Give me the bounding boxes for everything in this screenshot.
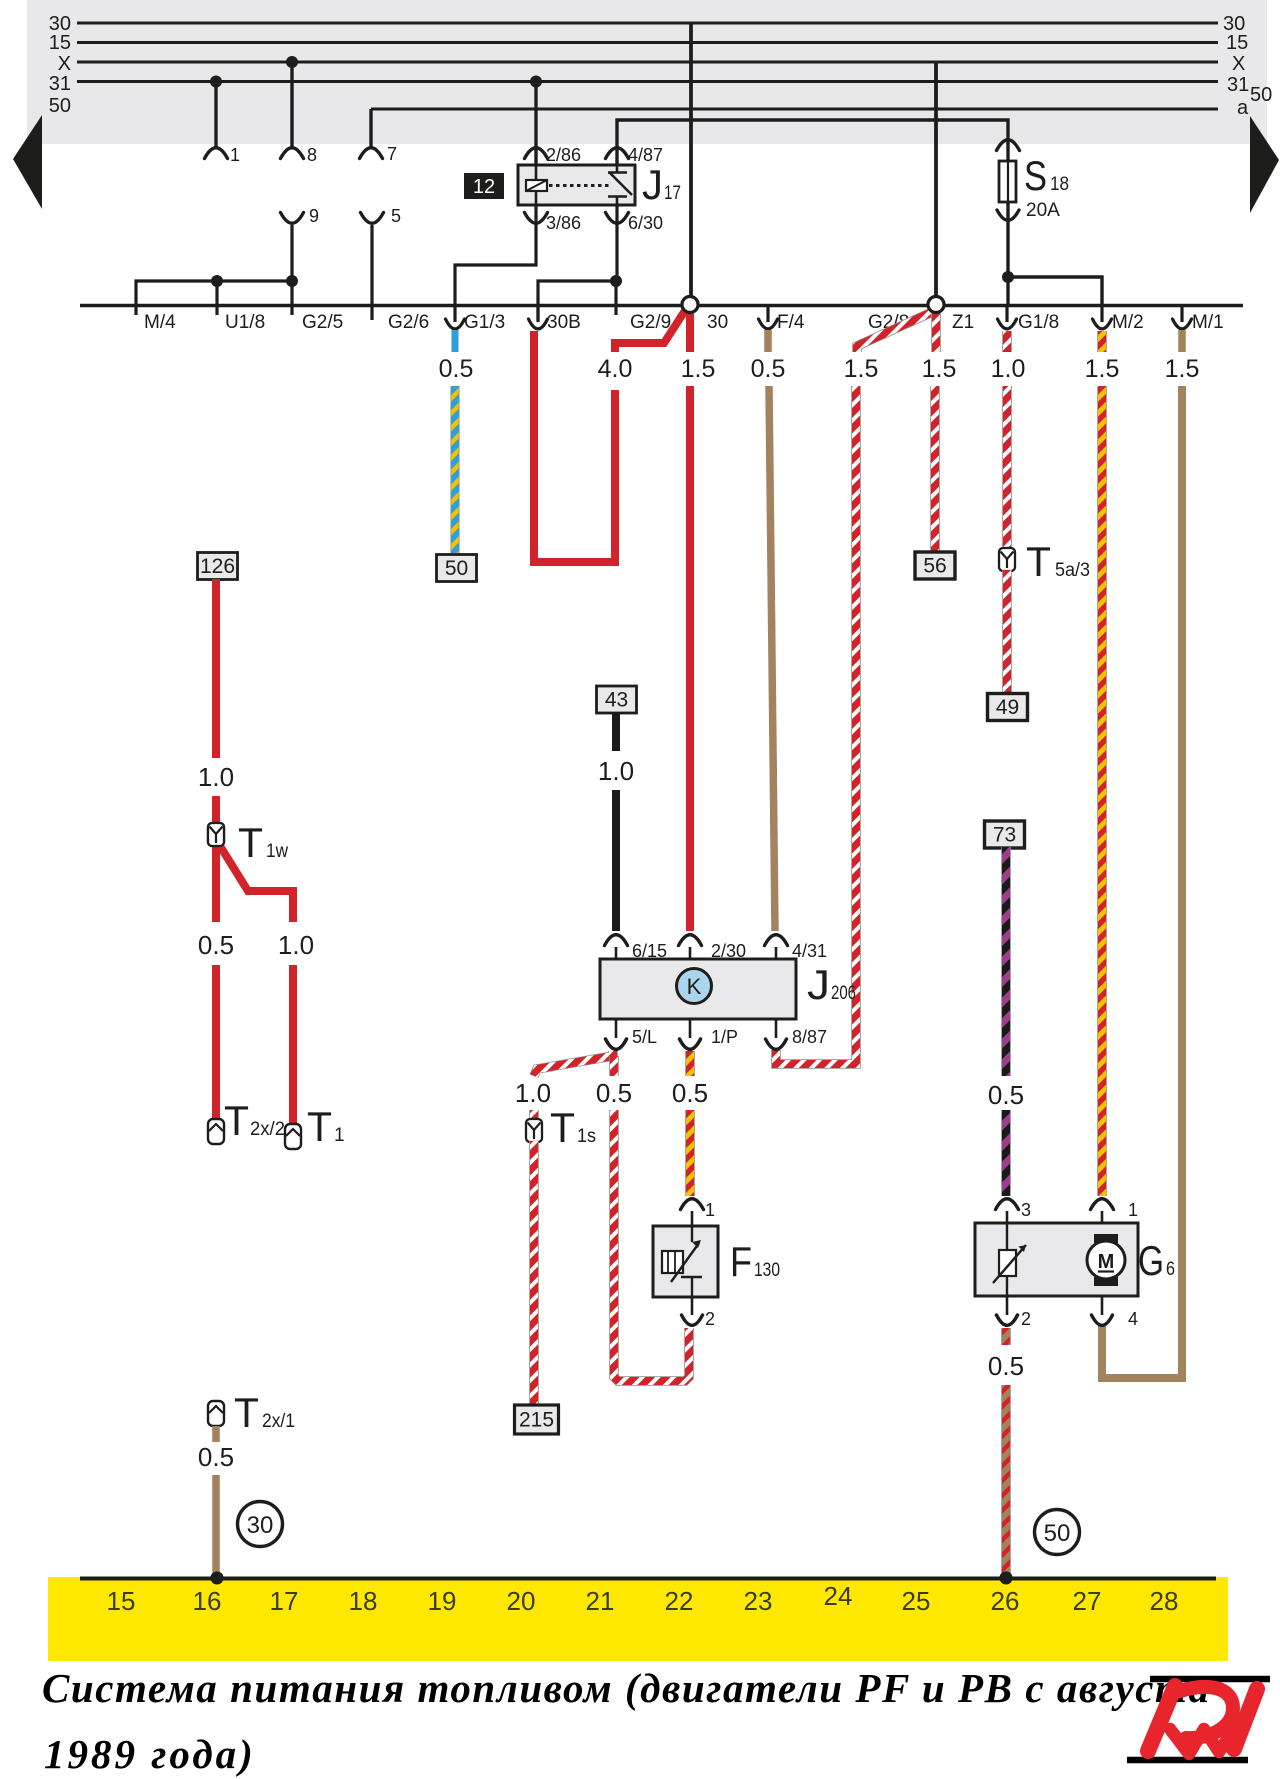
pin 6/30 bbox=[606, 213, 629, 224]
wire 1/P stub bbox=[685, 1051, 695, 1076]
pin 4/31 bbox=[765, 935, 788, 946]
wire 126 red upper bbox=[212, 579, 220, 758]
fuse S18 body bbox=[1007, 120, 1010, 305]
wire conn 5 to G2/6 bbox=[370, 225, 373, 320]
junction dot on X at x292 bbox=[286, 56, 298, 68]
fuse S18 bottom arc bbox=[997, 210, 1019, 220]
svg-text:50: 50 bbox=[1250, 84, 1272, 106]
cup G1/3 bbox=[453, 305, 456, 322]
wire 5/L down stub bbox=[609, 1056, 619, 1076]
svg-text:2: 2 bbox=[705, 1309, 715, 1329]
svg-text:M: M bbox=[1098, 1251, 1115, 1273]
svg-text:1: 1 bbox=[705, 1200, 715, 1220]
pin 2/86 bbox=[525, 148, 548, 159]
svg-text:1989 года): 1989 года) bbox=[44, 1731, 256, 1777]
G6 pin2 cup top bbox=[997, 1315, 1018, 1325]
left arrow bbox=[13, 115, 42, 209]
wire G1/3 stub bbox=[452, 330, 459, 352]
wire bus30 to terminal 30 bbox=[689, 23, 693, 296]
wire 4/87 to fuse bbox=[617, 120, 1008, 306]
svg-text:27: 27 bbox=[1073, 1586, 1102, 1616]
svg-text:0.5: 0.5 bbox=[988, 1080, 1024, 1110]
svg-text:1/P: 1/P bbox=[711, 1027, 738, 1047]
svg-text:M/2: M/2 bbox=[1112, 312, 1144, 333]
pin 8/87 bbox=[775, 1019, 778, 1038]
wire Z1 stub bbox=[931, 312, 941, 352]
wire busX to Z1 bbox=[934, 62, 938, 296]
box 126 bbox=[198, 553, 238, 580]
svg-text:31: 31 bbox=[1227, 74, 1249, 96]
cup G1/8 bbox=[1005, 305, 1008, 322]
wire 5/L to F130 pin2 bbox=[614, 1110, 689, 1381]
wire F/4 brown bbox=[769, 386, 775, 931]
svg-text:1.0: 1.0 bbox=[598, 756, 634, 786]
svg-text:5a/3: 5a/3 bbox=[1055, 560, 1090, 581]
svg-text:M/1: M/1 bbox=[1192, 312, 1224, 333]
svg-text:17: 17 bbox=[270, 1586, 299, 1616]
svg-text:7: 7 bbox=[387, 144, 397, 164]
G6 pin 1 bbox=[1091, 1199, 1114, 1210]
svg-text:22: 22 bbox=[665, 1586, 694, 1616]
wire 73 to G6 pin3 lower bbox=[1001, 1110, 1011, 1196]
wire net to 30B bbox=[538, 281, 616, 320]
svg-text:1.5: 1.5 bbox=[1085, 355, 1120, 383]
yellow track band bbox=[48, 1577, 1228, 1661]
svg-text:43: 43 bbox=[605, 689, 628, 712]
svg-text:2/30: 2/30 bbox=[711, 941, 746, 961]
connector 7 bbox=[360, 148, 383, 159]
svg-text:G1/3: G1/3 bbox=[464, 312, 505, 333]
logo red monogram bbox=[1148, 1686, 1175, 1751]
connector T1w bbox=[208, 823, 224, 846]
connector T1w redraw bbox=[208, 823, 224, 846]
G6 pin 2 bbox=[1006, 1296, 1009, 1315]
junction dot ground 16 bbox=[211, 1572, 224, 1585]
ground symbol 50 bbox=[1035, 1510, 1080, 1555]
wire T2x/1 stub bbox=[212, 1426, 220, 1442]
bus line 31 bbox=[77, 80, 1218, 83]
svg-text:S: S bbox=[1024, 152, 1047, 199]
svg-text:Z1: Z1 bbox=[952, 312, 974, 333]
J17 dotted link bbox=[549, 184, 612, 187]
svg-text:12: 12 bbox=[473, 176, 495, 198]
label 12 box bbox=[464, 173, 504, 199]
svg-text:1.5: 1.5 bbox=[1165, 355, 1200, 383]
connector T5a/3 bbox=[999, 548, 1015, 571]
wire T2x/1 to ground bbox=[212, 1475, 220, 1574]
svg-text:G1/8: G1/8 bbox=[1018, 312, 1059, 333]
pump G6 body bbox=[975, 1223, 1138, 1296]
wire G1/3 blue/yellow bbox=[450, 386, 459, 553]
svg-text:56: 56 bbox=[923, 555, 946, 578]
svg-text:6/30: 6/30 bbox=[628, 213, 663, 233]
right arrow bbox=[1250, 116, 1279, 213]
svg-text:49: 49 bbox=[996, 696, 1019, 719]
svg-text:4/87: 4/87 bbox=[628, 145, 663, 165]
rail bbox=[80, 304, 1243, 308]
svg-text:J: J bbox=[807, 961, 830, 1008]
svg-text:T: T bbox=[550, 1104, 575, 1151]
pin 6/15 bbox=[605, 935, 628, 946]
wire 126 red to T1w bbox=[212, 796, 220, 824]
wire M/1 stub bbox=[1178, 330, 1186, 352]
svg-text:1w: 1w bbox=[266, 841, 288, 862]
ground symbol 30 bbox=[238, 1502, 283, 1547]
wire G2/8 diagonal bbox=[857, 313, 930, 352]
junction dot S18 split bbox=[1002, 271, 1014, 283]
svg-text:1.0: 1.0 bbox=[198, 762, 234, 792]
svg-text:50: 50 bbox=[445, 557, 468, 580]
svg-text:1.0: 1.0 bbox=[278, 930, 314, 960]
sender F130 body bbox=[653, 1226, 718, 1297]
svg-text:5/L: 5/L bbox=[632, 1027, 657, 1047]
svg-text:0.5: 0.5 bbox=[198, 930, 234, 960]
wire M/2 to G6 pin1 bbox=[1097, 386, 1107, 1196]
svg-text:4: 4 bbox=[1128, 1309, 1138, 1329]
G6 sender symbol bbox=[1006, 1223, 1008, 1296]
wire T1s to 215 bbox=[529, 1141, 539, 1405]
svg-text:T: T bbox=[238, 819, 263, 866]
svg-text:0.5: 0.5 bbox=[439, 355, 474, 383]
junction dot U1/8 bbox=[211, 275, 223, 287]
svg-text:2x/1: 2x/1 bbox=[262, 1411, 295, 1432]
pin 5/L cup top bbox=[606, 1039, 627, 1049]
wire S18 to M/2 stub bbox=[1008, 277, 1102, 305]
wire 6/30 to net bbox=[615, 205, 618, 281]
wire 30B red 4.0 bbox=[534, 331, 615, 562]
box 215 bbox=[515, 1405, 559, 1434]
wire M/1 to G6 pin4 bbox=[1102, 386, 1182, 1378]
svg-text:126: 126 bbox=[200, 555, 235, 578]
svg-text:T: T bbox=[307, 1103, 332, 1150]
svg-text:G2/9: G2/9 bbox=[630, 312, 671, 333]
svg-text:18: 18 bbox=[1050, 174, 1069, 195]
svg-text:28: 28 bbox=[1150, 1586, 1179, 1616]
wire F/4 stub bbox=[764, 330, 772, 352]
svg-text:30: 30 bbox=[707, 312, 728, 333]
wire G6 pin2 stub bbox=[1001, 1328, 1011, 1345]
wire 43 black lower bbox=[612, 790, 620, 931]
svg-text:2/86: 2/86 bbox=[546, 145, 581, 165]
J17 switch bbox=[616, 165, 619, 173]
svg-text:30B: 30B bbox=[547, 312, 581, 333]
svg-text:X: X bbox=[1232, 53, 1245, 75]
cup M/1 bbox=[1180, 305, 1183, 322]
svg-text:20: 20 bbox=[507, 1586, 536, 1616]
connector 5 bbox=[361, 213, 384, 224]
svg-text:5: 5 bbox=[391, 206, 401, 226]
svg-text:1.5: 1.5 bbox=[681, 355, 716, 383]
svg-text:9: 9 bbox=[309, 206, 319, 226]
svg-text:F/4: F/4 bbox=[777, 312, 805, 333]
pin 2/30 bbox=[679, 935, 702, 946]
box 43 bbox=[597, 686, 637, 713]
wire Z1 to 56 bbox=[930, 386, 940, 552]
grey bus-bar band bbox=[27, 0, 1267, 144]
svg-text:15: 15 bbox=[107, 1586, 136, 1616]
wire local net y281 bbox=[136, 281, 293, 315]
svg-text:1.0: 1.0 bbox=[515, 1078, 551, 1108]
svg-text:23: 23 bbox=[744, 1586, 773, 1616]
wire to T1 bbox=[289, 965, 297, 1132]
bus line 30 bbox=[77, 22, 1218, 25]
connector 1 bbox=[205, 148, 228, 159]
relay J17 body bbox=[518, 165, 635, 205]
cup 30B bbox=[536, 305, 539, 322]
connector 8 bbox=[281, 148, 304, 159]
svg-text:26: 26 bbox=[991, 1586, 1020, 1616]
svg-text:X: X bbox=[58, 53, 71, 75]
node 30 circle top bbox=[682, 297, 698, 313]
svg-text:19: 19 bbox=[428, 1586, 457, 1616]
svg-text:0.5: 0.5 bbox=[596, 1078, 632, 1108]
svg-text:2: 2 bbox=[1021, 1309, 1031, 1329]
svg-text:T: T bbox=[224, 1097, 249, 1144]
logo bottom line bbox=[1127, 1757, 1248, 1764]
fuse S18 top arc bbox=[997, 140, 1020, 151]
svg-text:3/86: 3/86 bbox=[546, 213, 581, 233]
svg-text:6: 6 bbox=[1166, 1259, 1175, 1280]
wire conn 8 to bus X bbox=[290, 62, 293, 147]
svg-text:3: 3 bbox=[1021, 1200, 1031, 1220]
box 73 bbox=[985, 821, 1025, 848]
pin 1/P cup top bbox=[680, 1039, 701, 1049]
box 50 bbox=[437, 555, 477, 582]
node Z1 circle bbox=[928, 297, 944, 313]
wire G1/8 lower bbox=[1002, 570, 1012, 693]
svg-text:4.0: 4.0 bbox=[598, 355, 633, 383]
wire G1/8 stub bbox=[1002, 331, 1012, 352]
svg-text:73: 73 bbox=[993, 824, 1016, 847]
wire conn 7 elbow bbox=[369, 109, 372, 147]
J206 K symbol bbox=[677, 969, 712, 1004]
svg-text:G: G bbox=[1138, 1237, 1164, 1284]
box 49 bbox=[988, 694, 1028, 721]
bus line 15 bbox=[77, 41, 1218, 44]
F130 internals bbox=[691, 1226, 693, 1242]
svg-text:G2/6: G2/6 bbox=[388, 312, 429, 333]
cup F/4 bbox=[766, 305, 769, 322]
svg-text:4/31: 4/31 bbox=[792, 941, 827, 961]
svg-text:G2/5: G2/5 bbox=[302, 312, 343, 333]
wire U1/8 stub bbox=[215, 281, 218, 315]
svg-text:17: 17 bbox=[664, 183, 681, 204]
G6 pin 3 bbox=[996, 1199, 1019, 1210]
wire 3/86 to G1/3 bbox=[455, 205, 536, 305]
wire to T2x/2 bbox=[212, 965, 220, 1127]
junction dot on 31 at x536 bbox=[530, 76, 542, 88]
connector T1 bbox=[285, 1124, 301, 1149]
wire M/2 stub bbox=[1097, 331, 1107, 352]
wire 2/86 to bus 31 bbox=[534, 82, 537, 166]
wire T1w branch bbox=[220, 846, 293, 922]
connector T1s bbox=[526, 1119, 542, 1142]
node Z1 circle top bbox=[928, 297, 944, 313]
J17 coil bbox=[535, 165, 538, 180]
svg-text:215: 215 bbox=[519, 1409, 554, 1432]
svg-text:6/15: 6/15 bbox=[632, 941, 667, 961]
pin 3/86 bbox=[525, 213, 548, 224]
svg-text:2x/2: 2x/2 bbox=[250, 1119, 285, 1140]
cup M/2 bbox=[1100, 305, 1103, 322]
junction dot ground 26 bbox=[1000, 1572, 1013, 1585]
wire T1s upper bbox=[529, 1110, 539, 1120]
G6 motor symbol bbox=[1094, 1234, 1118, 1243]
wire conn 1 to bus 31 bbox=[214, 82, 217, 148]
junction dot G2/5 bbox=[286, 275, 298, 287]
svg-text:20A: 20A bbox=[1026, 200, 1060, 221]
svg-text:30: 30 bbox=[247, 1512, 274, 1539]
wire conn 9 stem bbox=[290, 225, 293, 281]
svg-text:50: 50 bbox=[49, 95, 71, 117]
svg-text:25: 25 bbox=[902, 1586, 931, 1616]
junction dot on 31 at x216 bbox=[210, 76, 222, 88]
svg-text:1.5: 1.5 bbox=[844, 355, 879, 383]
svg-text:M/4: M/4 bbox=[144, 312, 176, 333]
svg-text:Система питания топливом (двиг: Система питания топливом (двигатели PF и… bbox=[42, 1665, 1211, 1711]
pin 1/P bbox=[689, 1019, 692, 1038]
junction dot 6/30 net bbox=[610, 275, 622, 287]
wire G2/8 to 8/87 bbox=[776, 386, 856, 1064]
svg-text:1.0: 1.0 bbox=[991, 355, 1026, 383]
relay J206 body bbox=[600, 959, 796, 1019]
F130 pin 2 bbox=[691, 1297, 694, 1315]
wire 30 to 2/30 stub bbox=[686, 312, 694, 352]
connector T2x/1 bbox=[208, 1401, 224, 1426]
svg-text:8: 8 bbox=[307, 145, 317, 165]
wire 5/L diagonal bbox=[534, 1051, 613, 1076]
wire G1/8 upper bbox=[1002, 386, 1012, 549]
svg-text:a: a bbox=[1237, 97, 1249, 119]
svg-text:8/87: 8/87 bbox=[792, 1027, 827, 1047]
svg-text:0.5: 0.5 bbox=[198, 1442, 234, 1472]
wire 1/P to F130 bbox=[685, 1110, 695, 1196]
box 56 bbox=[915, 552, 955, 579]
svg-text:1: 1 bbox=[230, 145, 240, 165]
pin 4/87 bbox=[606, 148, 629, 159]
svg-text:16: 16 bbox=[193, 1586, 222, 1616]
svg-text:J: J bbox=[642, 161, 663, 208]
svg-text:T: T bbox=[234, 1389, 259, 1436]
svg-text:50: 50 bbox=[1044, 1520, 1071, 1547]
svg-text:1: 1 bbox=[1128, 1200, 1138, 1220]
track top line bbox=[80, 1577, 1216, 1581]
wire G6 pin2 to ground bbox=[1001, 1385, 1011, 1574]
svg-text:F: F bbox=[730, 1238, 752, 1285]
svg-text:1s: 1s bbox=[577, 1126, 596, 1147]
svg-text:15: 15 bbox=[49, 32, 71, 54]
wire G2/5 stub bbox=[290, 281, 293, 315]
logo top line bbox=[1150, 1676, 1270, 1683]
F130 pin 1 bbox=[681, 1199, 704, 1210]
svg-text:15: 15 bbox=[1226, 32, 1248, 54]
svg-text:1.5: 1.5 bbox=[922, 355, 957, 383]
connector 9 bbox=[281, 213, 304, 224]
svg-text:0.5: 0.5 bbox=[751, 355, 786, 383]
svg-text:1: 1 bbox=[334, 1125, 345, 1146]
svg-text:0.5: 0.5 bbox=[672, 1078, 708, 1108]
svg-text:21: 21 bbox=[586, 1586, 615, 1616]
svg-text:31: 31 bbox=[49, 73, 71, 95]
node 30 circle bbox=[682, 297, 698, 313]
bus line 50/a bbox=[371, 108, 1218, 111]
wire 43 black upper bbox=[612, 712, 620, 751]
connector T2x/2 bbox=[208, 1119, 224, 1144]
G6 pin 4 bbox=[1101, 1296, 1104, 1315]
wire 30 to 2/30 bbox=[686, 386, 694, 931]
svg-text:206: 206 bbox=[831, 983, 856, 1004]
wire 73 to G6 pin3 upper bbox=[1001, 847, 1011, 1076]
svg-text:K: K bbox=[687, 974, 702, 999]
wire T1w down bbox=[212, 846, 220, 922]
pin 5/L bbox=[615, 1019, 618, 1038]
svg-text:18: 18 bbox=[349, 1586, 378, 1616]
svg-text:24: 24 bbox=[824, 1581, 853, 1611]
svg-text:U1/8: U1/8 bbox=[225, 312, 265, 333]
svg-text:130: 130 bbox=[754, 1260, 780, 1281]
wire net to G2/9 bbox=[614, 281, 617, 315]
svg-text:0.5: 0.5 bbox=[988, 1351, 1024, 1381]
bus line X bbox=[77, 61, 1218, 64]
svg-text:T: T bbox=[1026, 538, 1051, 585]
